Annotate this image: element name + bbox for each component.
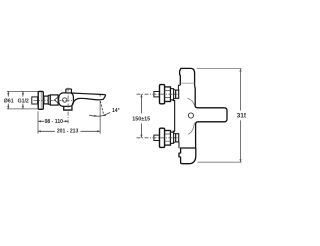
top pipe stub <box>154 92 160 97</box>
315 bottom extension <box>198 161 242 163</box>
dim 98-110 line <box>38 120 68 122</box>
dim 150±15 <box>140 94 142 138</box>
handle inner curve top <box>188 98 195 107</box>
bottom cone <box>174 133 176 143</box>
cap-to-connection step <box>178 85 180 90</box>
body cap (handle top) <box>180 68 195 85</box>
bottom hex flats <box>165 134 171 141</box>
315 top extension <box>197 68 242 70</box>
svg-text:98 - 110: 98 - 110 <box>45 119 64 125</box>
dim 201-213 line <box>38 130 100 132</box>
top hex nut <box>165 87 171 102</box>
top hex flats <box>165 90 171 97</box>
14 deg arc with arrows <box>89 112 110 117</box>
cone mark <box>54 98 57 103</box>
flange face line <box>40 92 42 109</box>
bottom small cylinder step <box>178 142 180 149</box>
horizontal centerline <box>34 99 75 101</box>
body + spout arm outline <box>195 85 227 148</box>
bottom pipe stub <box>154 135 160 140</box>
bottom connection centerline <box>137 137 178 139</box>
svg-text:201 - 213: 201 - 213 <box>57 128 79 134</box>
cap joint line <box>181 82 195 84</box>
block <box>50 95 58 105</box>
top connection centerline <box>137 93 178 95</box>
top small cylinder <box>176 90 179 98</box>
top wall flange <box>160 85 165 104</box>
screw circle <box>188 113 193 118</box>
lever tab <box>66 89 72 93</box>
valve body <box>59 93 74 107</box>
inner circle <box>62 98 66 102</box>
top step cylinder <box>171 89 174 100</box>
G1/2 pipe stub box <box>32 97 38 104</box>
dim Ø61 extension bottom <box>7 108 38 110</box>
wall flange (escutcheon) <box>38 91 43 109</box>
bottom cap of body <box>179 148 196 164</box>
left mid bracket between connections <box>173 101 175 132</box>
top cone <box>174 89 176 99</box>
handle inner curve bottom <box>188 123 194 135</box>
svg-text:150±15: 150±15 <box>132 117 150 123</box>
neck <box>44 96 48 104</box>
svg-text:14°: 14° <box>112 108 120 114</box>
svg-text:Ø61: Ø61 <box>4 98 14 104</box>
spout tip reference vline <box>99 95 101 98</box>
vertical centerline of valve <box>67 88 69 124</box>
315 dim line <box>239 69 241 163</box>
dim Ø61 extension top <box>7 90 38 92</box>
svg-text:315: 315 <box>237 113 246 120</box>
dim line Ø61 <box>7 91 9 109</box>
dim line G1/2 <box>22 91 24 109</box>
14 deg tilted dashed line <box>100 101 104 116</box>
bottom wall flange <box>160 128 165 147</box>
bottom hex nut <box>165 131 171 146</box>
body bottom tab <box>64 106 72 110</box>
bottom step cylinder <box>171 132 174 143</box>
svg-text:G1/2: G1/2 <box>18 98 29 104</box>
ring <box>48 95 50 104</box>
bottom small cylinder <box>176 134 179 142</box>
spout outline <box>71 93 105 106</box>
left extension line (wall plane) <box>37 111 39 134</box>
